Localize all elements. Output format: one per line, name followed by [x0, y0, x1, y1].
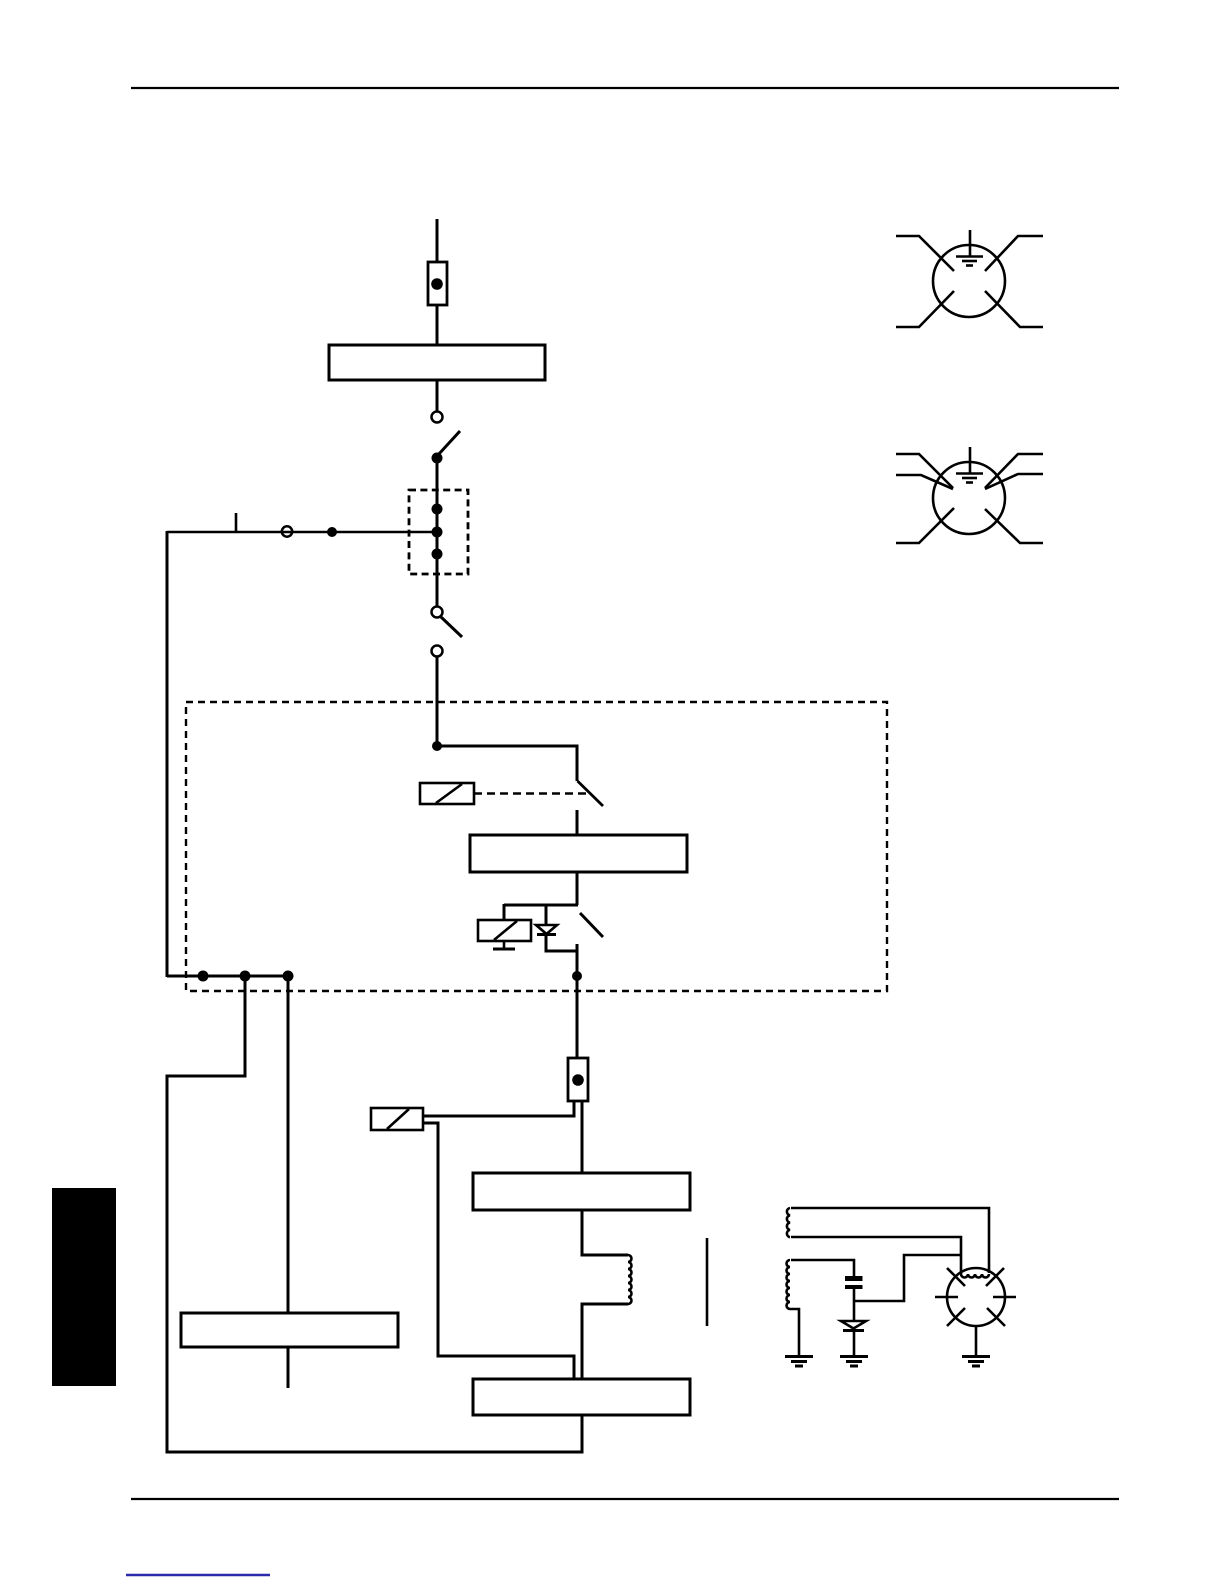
magneto terminal right — [993, 1296, 1016, 1299]
switch S1 blade — [438, 431, 460, 455]
ignition coil primary L2 — [787, 1208, 790, 1237]
node D — [240, 971, 251, 982]
wire F2 left pin to K3 — [423, 1101, 574, 1116]
magneto terminal lower-left — [947, 1308, 965, 1326]
block B2 — [470, 835, 687, 872]
header rule — [131, 87, 1119, 89]
wire node bus — [167, 975, 288, 978]
ground G3 — [962, 1357, 990, 1367]
connector J1 pin bottom-right — [985, 291, 1043, 327]
wire D1 return — [546, 936, 577, 951]
diode D2 — [841, 1321, 866, 1331]
block B1 — [329, 345, 545, 380]
node X1 pin 3 — [432, 549, 443, 560]
wire node E to block B5 — [287, 976, 290, 1313]
wire K2 contact down to fuse F2 — [576, 944, 579, 1059]
connector J2 pin lower-left — [896, 508, 954, 543]
connector J2 pin upper-left 2 — [896, 475, 953, 489]
connector J2 body — [933, 462, 1005, 534]
wire B4 bottom return run — [167, 976, 582, 1452]
switch S1 fixed contact — [432, 412, 443, 423]
wire F1 to B1 — [436, 305, 439, 345]
wire node A to K1 switch — [437, 746, 577, 781]
footer link underline — [126, 1574, 270, 1576]
magneto terminal upper-right — [986, 1268, 1004, 1286]
node E — [283, 971, 294, 982]
wire K1 to block B2 — [576, 810, 579, 835]
wire left branch — [167, 531, 437, 534]
diode D1 — [536, 925, 557, 935]
switch S2 blade — [441, 617, 462, 637]
node S1 lower contact — [432, 453, 443, 464]
wire S1 to connector X1 — [436, 458, 439, 606]
block B3 — [473, 1173, 690, 1210]
ignition coil secondary L3 — [787, 1260, 791, 1309]
capacitor C1 — [845, 1276, 863, 1289]
relay K2 coil — [478, 920, 531, 941]
wire D2 to ground — [853, 1331, 856, 1356]
wire C1 to diode D2 — [853, 1289, 856, 1321]
wire B3 to inductor L1 — [582, 1210, 628, 1255]
block B5 — [181, 1313, 398, 1347]
wire L2 bottom lead — [791, 1237, 961, 1274]
wire L2 top lead — [791, 1208, 989, 1273]
wire B1 to switch S1 — [436, 380, 439, 411]
wire L1 to block B4 — [582, 1304, 628, 1379]
wire L3 top lead to capacitor C1 — [791, 1260, 854, 1277]
wire to diode D1 — [545, 904, 548, 925]
wire F2 right pin to block B3 — [581, 1101, 584, 1173]
wire L3 bottom lead to ground — [790, 1309, 799, 1356]
wire junction bar — [504, 904, 578, 907]
inductor L1 — [628, 1255, 632, 1304]
wire supply feed top — [436, 219, 439, 263]
node X1 pin 1 — [432, 504, 443, 515]
wire B5 stub — [287, 1347, 290, 1388]
relay K2 contact blade — [580, 913, 603, 937]
connector J1 pin top-right — [985, 236, 1043, 271]
K1 linkage (dashed) — [474, 792, 591, 795]
fuse F2 — [568, 1058, 588, 1101]
tick mark on branch — [235, 513, 238, 531]
connector J1 shield ground — [956, 230, 983, 266]
connector X1 (dashed) — [409, 490, 468, 574]
sidebar tab — [52, 1188, 116, 1386]
connector J1 body — [933, 245, 1005, 317]
node A — [432, 741, 442, 751]
connector J2 pin upper-left 1 — [896, 454, 953, 488]
node X1 pin 2 — [432, 527, 443, 538]
magneto M1 body — [947, 1268, 1005, 1326]
control unit enclosure (dashed) — [186, 702, 887, 991]
wire K3 lower stub long run — [423, 1123, 574, 1379]
magneto terminal left — [935, 1296, 958, 1299]
magneto terminal lower-right — [987, 1308, 1005, 1326]
wire to K2 coil — [503, 904, 506, 920]
wire B2 to K2 junction — [576, 872, 579, 905]
connector J2 shield ground — [956, 447, 983, 483]
ground G1 — [785, 1357, 813, 1367]
connector J2 pin upper-right 2 — [985, 474, 1043, 489]
block B4 — [473, 1379, 690, 1415]
K2 chassis tick — [493, 941, 515, 949]
switch S2 upper contact — [432, 607, 443, 618]
relay K3 coil — [371, 1108, 423, 1130]
connector J2 pin upper-right 1 — [985, 454, 1043, 488]
relay K1 contact blade — [578, 781, 604, 806]
wire left rail upper — [166, 531, 169, 977]
node on branch — [327, 527, 337, 537]
connector J1 pin top-left — [896, 236, 954, 271]
node C — [198, 971, 209, 982]
connector J2 pin lower-right — [985, 509, 1043, 543]
wire S2 to control unit — [436, 657, 439, 748]
magneto terminal upper-left — [947, 1268, 965, 1286]
standalone conductor bar — [706, 1238, 709, 1326]
wire tap to capacitor net — [855, 1255, 961, 1301]
relay K1 coil — [420, 783, 474, 804]
footer rule — [131, 1498, 1119, 1500]
fuse F1 — [428, 262, 447, 305]
switch S2 lower contact — [432, 646, 443, 657]
terminal ring on branch — [282, 526, 292, 536]
magneto pickup winding — [961, 1274, 989, 1278]
connector J1 pin bottom-left — [896, 291, 954, 327]
node B — [572, 971, 582, 981]
ground G2 — [840, 1357, 868, 1367]
wire magneto to ground — [975, 1326, 978, 1356]
